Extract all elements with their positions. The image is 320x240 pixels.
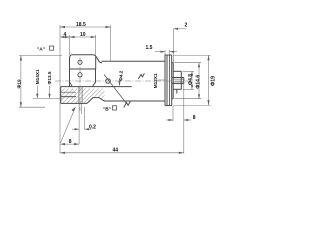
svg-text:M12X1: M12X1 (153, 73, 158, 88)
svg-text:44: 44 (113, 147, 119, 153)
svg-text:8: 8 (69, 139, 72, 145)
svg-text:4: 4 (64, 32, 67, 38)
svg-text:0.2: 0.2 (89, 124, 96, 130)
svg-text:Φ13.5: Φ13.5 (47, 71, 52, 84)
svg-text:M14X1: M14X1 (35, 69, 40, 84)
svg-text:10: 10 (80, 32, 86, 38)
svg-text:2: 2 (185, 23, 188, 29)
svg-text:"B": "B" (103, 106, 111, 112)
svg-text:Φ4.2: Φ4.2 (118, 70, 123, 81)
svg-text:Φ19: Φ19 (17, 79, 22, 88)
svg-text:8: 8 (193, 115, 196, 121)
svg-text:"A": "A" (37, 46, 45, 52)
svg-text:Φ19: Φ19 (211, 76, 217, 86)
svg-text:Φ4.8: Φ4.8 (188, 74, 194, 85)
svg-text:Φ14.6: Φ14.6 (195, 75, 201, 89)
svg-text:18.5: 18.5 (76, 22, 86, 28)
svg-text:1.5: 1.5 (146, 45, 153, 51)
